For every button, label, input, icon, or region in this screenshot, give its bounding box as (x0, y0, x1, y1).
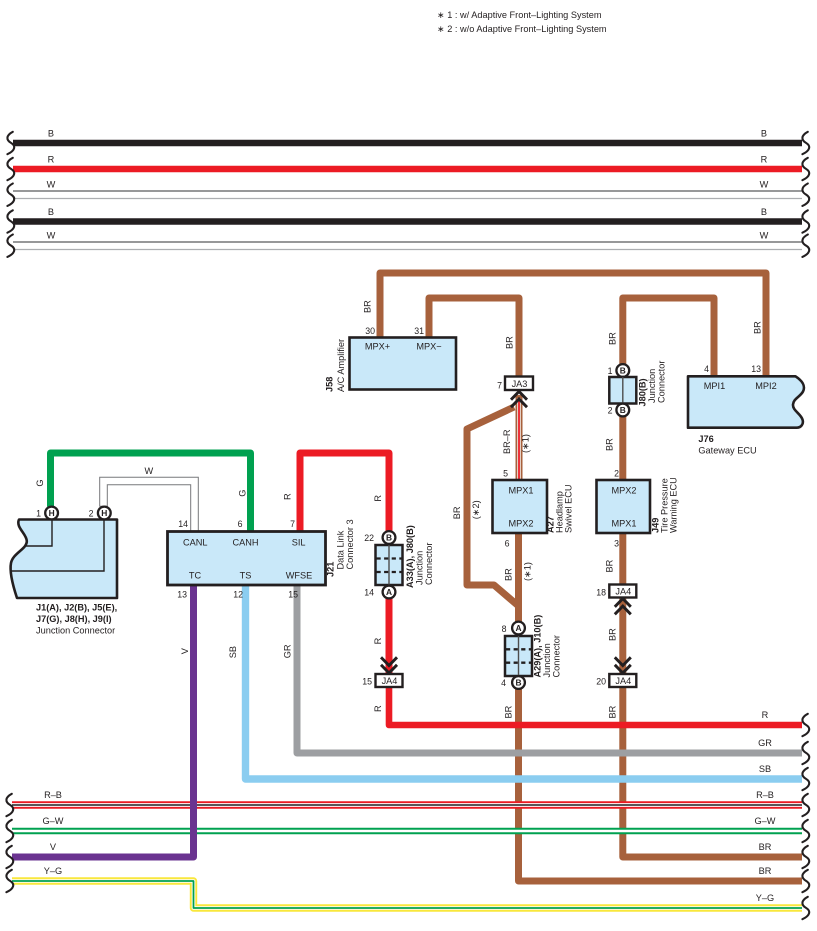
svg-text:W: W (760, 180, 769, 190)
svg-text:J7(G), J8(H), J9(I): J7(G), J8(H), J9(I) (36, 614, 112, 624)
break marks top-right (802, 132, 809, 257)
wire GR J21 WFSE to GR bus right (283, 585, 803, 753)
svg-text:Connector: Connector (424, 543, 434, 585)
wire BR J80(B) pin2 to J49 MPX2 (605, 417, 623, 482)
svg-text:B: B (761, 129, 767, 139)
svg-text:G–W: G–W (755, 816, 776, 826)
svg-text:BR: BR (605, 559, 615, 572)
wire G junction pin1 to J21 CANH (35, 453, 251, 532)
svg-text:SIL: SIL (292, 538, 306, 548)
svg-text:BR: BR (608, 628, 618, 641)
svg-text:Gateway ECU: Gateway ECU (698, 446, 756, 456)
svg-text:Swivel ECU: Swivel ECU (564, 485, 574, 534)
svg-text:Junction: Junction (415, 551, 425, 585)
svg-text:TS: TS (240, 571, 252, 581)
svg-text:6: 6 (238, 519, 243, 529)
pin 3 label J49 (614, 539, 619, 549)
wire V J21 TC to V bus left (12, 585, 194, 857)
junction connector A33(A) J80(B) (364, 525, 434, 598)
svg-text:TC: TC (189, 571, 202, 581)
svg-text:GR: GR (758, 738, 772, 748)
svg-text:J80(B): J80(B) (638, 378, 648, 406)
svg-text:12: 12 (233, 590, 243, 600)
svg-text:R: R (373, 637, 383, 644)
svg-text:A: A (386, 587, 392, 597)
svg-text:GR: GR (283, 644, 293, 658)
svg-text:1: 1 (36, 509, 41, 519)
junction connector J1/J2/J5/J7/J8/J9 (11, 507, 118, 636)
svg-text:Junction: Junction (542, 643, 552, 677)
svg-text:7: 7 (290, 519, 295, 529)
svg-text:A: A (515, 623, 521, 633)
svg-text:BR: BR (605, 438, 615, 451)
svg-text:BR: BR (452, 506, 462, 519)
svg-text:R: R (48, 155, 55, 165)
svg-text:7: 7 (497, 381, 502, 391)
svg-text:BR–R: BR–R (502, 429, 512, 454)
svg-text:3: 3 (614, 539, 619, 549)
svg-text:JA3: JA3 (512, 379, 528, 389)
ECU A27 Headlamp Swivel ECU (493, 480, 574, 533)
svg-text:BR: BR (608, 332, 618, 345)
svg-text:MPI2: MPI2 (755, 381, 776, 391)
junction connector J80(B) right (608, 361, 667, 417)
svg-text:B: B (48, 207, 54, 217)
svg-text:H: H (101, 508, 107, 518)
pin 5 label A27 (503, 469, 508, 479)
svg-text:JA4: JA4 (615, 676, 631, 686)
svg-text:Junction Connector: Junction Connector (36, 626, 115, 636)
svg-text:A33(A), J80(B): A33(A), J80(B) (405, 525, 415, 588)
svg-text:30: 30 (365, 326, 375, 336)
ECU J76 Gateway ECU (688, 364, 804, 456)
wire R JA4-15 to R bus right (373, 687, 802, 725)
svg-text:2: 2 (614, 469, 619, 479)
svg-text:(∗2): (∗2) (471, 500, 481, 519)
svg-text:BR: BR (759, 842, 772, 852)
svg-text:Junction: Junction (647, 369, 657, 403)
svg-text:14: 14 (178, 519, 188, 529)
svg-text:MPX1: MPX1 (508, 486, 533, 496)
wire bus R top (13, 155, 802, 170)
svg-text:R: R (762, 710, 769, 720)
svg-text:15: 15 (362, 677, 372, 687)
wire BR A27 MPX2 to A29 pin8 (504, 533, 533, 623)
pin 6 label A27 (505, 539, 510, 549)
svg-text:MPX1: MPX1 (611, 519, 636, 529)
svg-text:Connector 3: Connector 3 (345, 519, 355, 569)
svg-text:1: 1 (608, 366, 613, 376)
svg-text:8: 8 (502, 624, 507, 634)
svg-text:G: G (35, 479, 45, 486)
svg-text:2: 2 (608, 406, 613, 416)
svg-text:B: B (515, 678, 521, 688)
svg-text:R: R (761, 155, 768, 165)
connector JA4-15 (362, 657, 402, 687)
svg-text:WFSE: WFSE (286, 571, 313, 581)
svg-text:(∗1): (∗1) (521, 434, 531, 453)
svg-text:R–B: R–B (44, 790, 62, 800)
svg-text:(∗1): (∗1) (522, 562, 532, 581)
svg-text:CANL: CANL (183, 538, 208, 548)
svg-text:R: R (283, 493, 293, 500)
svg-text:13: 13 (177, 590, 187, 600)
svg-text:18: 18 (596, 588, 606, 598)
svg-text:14: 14 (364, 588, 374, 598)
svg-text:W: W (47, 231, 56, 241)
svg-text:H: H (49, 508, 55, 518)
svg-text:6: 6 (505, 539, 510, 549)
svg-text:A29(A), J10(B): A29(A), J10(B) (533, 615, 543, 678)
notes (437, 10, 607, 34)
break marks bottom-right (802, 714, 809, 919)
svg-text:MPX+: MPX+ (365, 342, 390, 352)
ECU J58 A/C Amplifier (325, 326, 457, 392)
svg-text:Connector: Connector (657, 361, 667, 403)
svg-text:∗ 2 : w/o Adaptive Front–Light: ∗ 2 : w/o Adaptive Front–Lighting System (437, 24, 607, 34)
svg-text:R: R (373, 495, 383, 502)
svg-text:JA4: JA4 (615, 587, 631, 597)
svg-text:Y–G: Y–G (44, 866, 62, 876)
wire BR A29 pin4 to BR bus right (504, 689, 803, 881)
svg-text:G: G (238, 490, 248, 497)
svg-text:5: 5 (503, 469, 508, 479)
svg-text:20: 20 (596, 677, 606, 687)
svg-text:MPX2: MPX2 (611, 486, 636, 496)
connector JA4-20 (596, 657, 636, 687)
wire BR J80(B) pin1 to J76 MPI1 (608, 298, 715, 376)
svg-text:Connector: Connector (552, 635, 562, 677)
connector JA4-18 (596, 585, 636, 615)
svg-text:31: 31 (414, 326, 424, 336)
svg-text:SB: SB (759, 764, 771, 774)
svg-text:V: V (180, 647, 190, 654)
svg-text:W: W (47, 180, 56, 190)
break marks bottom-left (6, 794, 13, 892)
svg-text:JA4: JA4 (382, 676, 398, 686)
svg-text:B: B (386, 533, 392, 543)
svg-text:BR: BR (608, 705, 618, 718)
svg-text:B: B (761, 207, 767, 217)
junction connector A29(A) J10(B) (501, 615, 561, 689)
svg-text:∗ 1 : w/ Adaptive Front–Lighti: ∗ 1 : w/ Adaptive Front–Lighting System (437, 10, 602, 20)
svg-text:J58: J58 (325, 377, 335, 392)
wire BR J49 MPX1 to JA4-18 (605, 533, 623, 584)
svg-text:MPI1: MPI1 (704, 381, 725, 391)
connector JA3 (497, 377, 533, 408)
svg-text:J21: J21 (326, 562, 336, 577)
break marks top-left (7, 132, 14, 257)
wire bus G-W (12, 816, 802, 831)
svg-text:BR: BR (753, 321, 763, 334)
svg-text:BR: BR (504, 705, 514, 718)
svg-text:R–B: R–B (756, 790, 774, 800)
wire W junction pin2 to J21 CANL (104, 466, 195, 532)
wire BR J58 pin30 to J76 MPI2 (363, 273, 767, 376)
svg-text:15: 15 (288, 590, 298, 600)
connector J21 Data Link Connector 3 (168, 519, 356, 600)
wire bus R-B (12, 790, 802, 805)
svg-text:G–W: G–W (43, 816, 64, 826)
svg-text:4: 4 (501, 678, 506, 688)
svg-text:R: R (373, 705, 383, 712)
wire BR (*2) JA3 to A29 (452, 407, 519, 616)
svg-text:V: V (50, 842, 57, 852)
wire bus W top (13, 180, 802, 199)
svg-text:MPX2: MPX2 (508, 519, 533, 529)
wire bus W2 top (13, 231, 802, 250)
wire bus Y-G (12, 866, 802, 908)
svg-text:W: W (144, 466, 153, 476)
svg-text:B: B (620, 405, 626, 415)
wire bus B top (13, 129, 802, 144)
wire R J21 SIL to A33 pin22 (283, 453, 390, 532)
svg-text:2: 2 (89, 509, 94, 519)
wire SB J21 TS to SB bus right (228, 585, 802, 779)
svg-text:B: B (620, 366, 626, 376)
wire BR J58 pin31 to JA3 (429, 298, 519, 377)
svg-text:CANH: CANH (232, 538, 258, 548)
svg-text:MPX−: MPX− (416, 342, 441, 352)
wire BR JA4-20 to BR bus right (608, 687, 803, 857)
svg-text:J76: J76 (698, 434, 713, 444)
ECU J49 Tire Pressure Warning ECU (597, 477, 679, 533)
svg-text:BR: BR (759, 866, 772, 876)
wire BR JA4-18 to JA4-20 (608, 597, 623, 674)
svg-text:22: 22 (364, 533, 374, 543)
svg-text:A/C Amplifier: A/C Amplifier (336, 339, 346, 392)
svg-text:Data Link: Data Link (336, 530, 346, 569)
svg-text:BR: BR (504, 568, 514, 581)
wire R A33 pin14 to JA4-15 (373, 598, 389, 674)
svg-text:4: 4 (704, 364, 709, 374)
svg-text:SB: SB (228, 646, 238, 658)
svg-text:W: W (760, 231, 769, 241)
pin 2 label J49 (614, 469, 619, 479)
svg-text:Y–G: Y–G (756, 893, 774, 903)
svg-text:Warning ECU: Warning ECU (669, 477, 679, 533)
svg-text:BR: BR (363, 300, 373, 313)
svg-text:J1(A), J2(B), J5(E),: J1(A), J2(B), J5(E), (36, 603, 117, 613)
wire bus B2 top (13, 207, 802, 222)
svg-text:B: B (48, 129, 54, 139)
svg-text:BR: BR (505, 336, 515, 349)
svg-text:13: 13 (751, 364, 761, 374)
wire BR-R (*1) JA3 to A27 MPX1 (502, 395, 531, 481)
